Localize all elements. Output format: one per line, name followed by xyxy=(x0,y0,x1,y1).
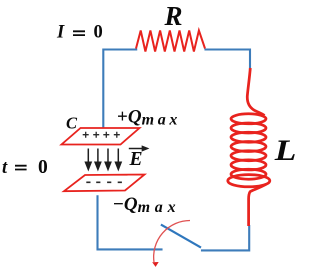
svg-text:I0: I0 xyxy=(56,23,103,43)
svg-text:L: L xyxy=(274,135,297,168)
svg-text:−Qmax: −Qmax xyxy=(113,194,180,216)
svg-text:+Qmax: +Qmax xyxy=(117,106,181,128)
svg-text:t0: t0 xyxy=(2,157,48,178)
svg-text:E: E xyxy=(129,149,143,170)
svg-text:R: R xyxy=(164,1,183,31)
svg-text:C: C xyxy=(66,114,78,133)
